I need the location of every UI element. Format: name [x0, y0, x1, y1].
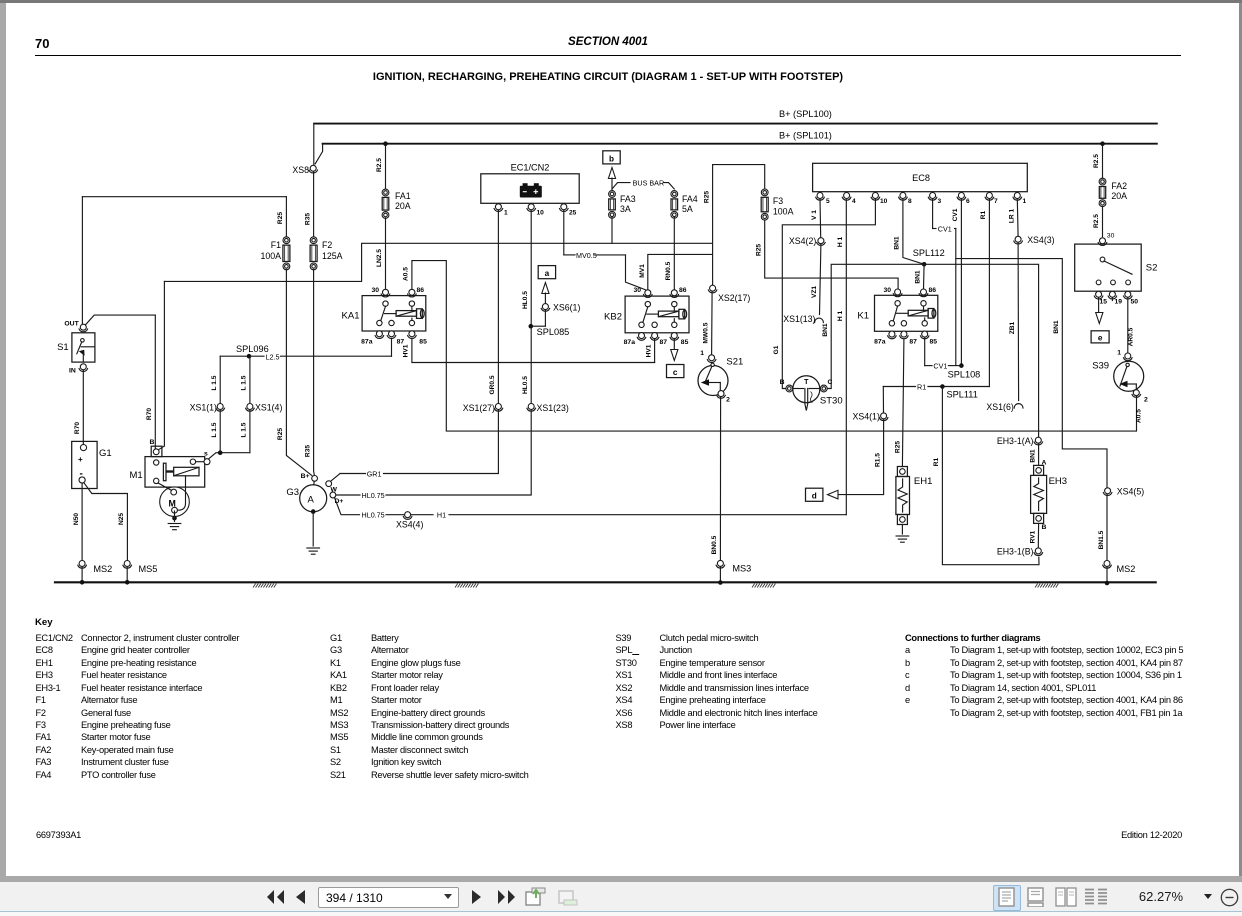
controller box EC8	[813, 163, 1028, 191]
wire CV1 pin3 down	[955, 229, 957, 366]
wire BN1 EH3-1(A) to EH3	[1038, 443, 1040, 465]
reference c box	[667, 365, 684, 378]
connector XS4(3)	[1015, 236, 1021, 242]
hatch marks on ground rail	[253, 584, 276, 588]
wire R25 K1-87 to EH1	[902, 340, 904, 467]
bus B+ (SPL101)	[323, 143, 1157, 145]
svg-text:87: 87	[909, 339, 917, 346]
svg-text:XS4(2): XS4(2)	[789, 236, 816, 246]
svg-text:AR0.5: AR0.5	[1127, 327, 1134, 346]
wire M1 B feed	[163, 281, 165, 446]
footer document number	[36, 830, 81, 840]
junction SPL112	[922, 262, 927, 267]
wire F1 feed from S1 OUT	[82, 196, 286, 198]
svg-text:L 1.5: L 1.5	[211, 375, 218, 390]
svg-text:BN1: BN1	[1030, 449, 1037, 463]
toolbar background	[0, 882, 1242, 912]
wire G1 EC8-10 to ST30 B	[782, 199, 875, 389]
relay KB2 front loader relay	[625, 296, 689, 333]
wire CV1 EC8-3 elbow	[932, 199, 934, 229]
svg-text:M1: M1	[129, 470, 142, 481]
wire HL0.5 EC1 pin10 to XS1(23)	[530, 210, 532, 403]
wire GR1 into G3 W	[331, 474, 340, 482]
svg-text:R1: R1	[980, 210, 987, 219]
wire FA3 to battery rail	[611, 217, 613, 243]
ground of EH1	[901, 525, 903, 535]
wire RN0.5 FA4 to KB2-86	[673, 217, 675, 289]
svg-text:2: 2	[1144, 397, 1148, 404]
svg-text:30: 30	[633, 287, 641, 294]
svg-text:EH3-1(A): EH3-1(A)	[997, 436, 1034, 446]
arrow to d	[828, 490, 839, 499]
wire R25 F1 to G3 B+	[286, 269, 311, 475]
svg-text:+: +	[78, 455, 83, 464]
svg-text:XS8: XS8	[292, 165, 309, 175]
svg-text:XS1(27): XS1(27)	[463, 403, 495, 413]
svg-text:CV1: CV1	[933, 361, 947, 370]
toolbar continuous layout icon	[1027, 887, 1044, 907]
connector EH3-1(A)	[1035, 437, 1041, 443]
svg-text:R70: R70	[146, 408, 153, 420]
battery G1	[72, 441, 97, 488]
connector XS1(4)	[247, 404, 253, 410]
battery icon in EC1/CN2	[520, 186, 542, 198]
junction SPL085	[529, 324, 534, 329]
svg-text:1: 1	[1117, 350, 1121, 357]
svg-text:SPL096: SPL096	[236, 344, 269, 354]
connector XS1(23)	[528, 404, 534, 410]
svg-text:N50: N50	[73, 513, 80, 525]
svg-text:B: B	[150, 439, 155, 446]
clutch pedal micro-switch S39	[1114, 361, 1144, 391]
wire S1 OUT to F1 rail	[81, 197, 83, 324]
ground of M1	[172, 516, 177, 521]
svg-text:S39: S39	[1092, 361, 1109, 372]
ground MS3	[717, 560, 723, 566]
svg-text:BN1: BN1	[915, 270, 922, 284]
fuse FA4 5A	[671, 191, 678, 198]
ground MS2 right	[1104, 561, 1110, 567]
svg-text:EH3: EH3	[1049, 476, 1067, 487]
svg-text:BN1.5: BN1.5	[1098, 530, 1105, 549]
svg-text:87a: 87a	[624, 339, 636, 346]
bus B+ (SPL100)	[314, 123, 1157, 125]
svg-text:HL0.75: HL0.75	[362, 511, 385, 520]
wire GR0.5 EC1 pin1 to XS1(27)	[497, 210, 499, 403]
arrow to a	[542, 283, 549, 294]
wire R25 F3 to K1-30	[765, 220, 898, 289]
terminal B+ of G3	[312, 476, 318, 482]
ignition key switch S2	[1075, 244, 1142, 291]
wire KB2-30 up and to XS2 column	[648, 254, 712, 289]
ground MS2 left	[79, 561, 85, 567]
wire VZ1 XS4(2) to XS1(13)	[820, 244, 821, 315]
toolbar next view icon disabled	[556, 887, 579, 908]
toolbar zoom dropdown caret	[1204, 894, 1212, 899]
svg-text:HL0.75: HL0.75	[362, 491, 385, 500]
svg-text:R70: R70	[74, 422, 81, 434]
wire KB2-85 to c arrow	[673, 339, 675, 349]
pin 6 of EC8	[958, 193, 964, 199]
svg-text:XS4(5): XS4(5)	[1117, 487, 1144, 497]
wire F2 to G3 B+	[313, 269, 316, 475]
svg-text:B+ (SPL100): B+ (SPL100)	[779, 109, 832, 119]
wire N50 G1 to MS2	[81, 483, 83, 560]
svg-text:A0.5: A0.5	[403, 267, 410, 281]
svg-text:XS1(1): XS1(1)	[190, 403, 217, 413]
svg-text:F1: F1	[271, 240, 281, 250]
svg-text:GR1: GR1	[367, 470, 382, 479]
svg-text:BUS BAR: BUS BAR	[633, 178, 665, 187]
wire HL0.75 G3 D+ to H1 line	[335, 498, 360, 515]
svg-text:8: 8	[908, 198, 912, 205]
toolbar single page layout active	[993, 885, 1021, 911]
arrow to b	[608, 168, 615, 179]
toolbar next page button	[469, 889, 483, 905]
svg-text:3A: 3A	[620, 204, 631, 214]
svg-text:b: b	[609, 154, 614, 163]
pin 1 of EC8	[1014, 193, 1020, 199]
wire HV1 KA1-85 to KB2-87	[412, 339, 655, 363]
wire R2.5 bus2 to FA2	[1100, 141, 1105, 146]
svg-text:B: B	[780, 379, 785, 386]
svg-text:IN: IN	[69, 368, 76, 375]
svg-text:4: 4	[852, 198, 856, 205]
viewer left strip	[0, 3, 6, 877]
wire N25 G1 to MS5	[84, 483, 127, 560]
wire ZB1 XS4(3) to XS1(6)	[1017, 243, 1020, 401]
svg-text:30: 30	[1107, 233, 1115, 240]
svg-text:R2.5: R2.5	[376, 158, 383, 172]
fuse F2 125A	[310, 237, 317, 244]
starter motor M1	[145, 457, 205, 488]
pin 3 of EC8	[930, 193, 936, 199]
connector box EC1/CN2	[481, 174, 579, 204]
svg-text:XS1(4): XS1(4)	[255, 403, 282, 413]
svg-text:ZB1: ZB1	[1009, 321, 1016, 334]
viewer right strip	[1239, 3, 1242, 877]
svg-text:86: 86	[679, 287, 687, 294]
svg-text:20A: 20A	[395, 201, 411, 211]
svg-text:L 1.5: L 1.5	[211, 422, 218, 437]
svg-text:86: 86	[417, 287, 425, 294]
heater resistance EH1	[897, 467, 907, 477]
wire F3 feed column (XS2 branch)	[713, 165, 765, 189]
svg-text:G1: G1	[773, 345, 780, 354]
svg-text:KA1: KA1	[342, 311, 360, 322]
svg-text:KB2: KB2	[604, 312, 622, 323]
wire XS6(1) to SPL085	[544, 310, 546, 326]
svg-text:87a: 87a	[361, 339, 373, 346]
svg-text:10: 10	[537, 210, 545, 217]
svg-text:85: 85	[930, 339, 938, 346]
svg-text:FA4: FA4	[682, 194, 698, 204]
wire LR1 EC8-1 to XS4(3)	[1016, 199, 1019, 236]
connector XS6(1)	[542, 304, 548, 310]
svg-text:XS6(1): XS6(1)	[553, 303, 580, 313]
svg-text:EC8: EC8	[912, 173, 930, 183]
svg-text:SPL085: SPL085	[537, 327, 570, 337]
wire MV0.5 EC1 pin25 to KB2-30	[563, 210, 565, 255]
svg-text:7: 7	[994, 198, 998, 205]
svg-text:VZ1: VZ1	[811, 286, 818, 298]
svg-text:R25: R25	[755, 244, 762, 256]
svg-text:HL0.5: HL0.5	[522, 376, 529, 394]
wire R1.5 to d arrow	[882, 387, 884, 413]
svg-text:R25: R25	[277, 428, 284, 440]
reference a box	[538, 266, 555, 279]
ground MS5	[124, 561, 130, 567]
svg-text:XS1(23): XS1(23)	[537, 403, 569, 413]
toolbar page number box	[318, 887, 459, 908]
connector XS4(4)	[405, 512, 411, 518]
connector XS1(1)	[217, 404, 223, 410]
toolbar previous page button	[294, 889, 308, 905]
temperature sensor ST30	[793, 376, 820, 403]
wire XS1(23) to HL0.75 line	[386, 410, 531, 495]
svg-text:25: 25	[569, 210, 577, 217]
pin 2 of S21	[718, 391, 724, 397]
svg-text:LR 1: LR 1	[1009, 209, 1016, 224]
svg-text:RV1: RV1	[1029, 530, 1036, 543]
svg-text:20A: 20A	[1111, 191, 1127, 201]
svg-text:d: d	[812, 492, 817, 501]
motor M of M1	[160, 487, 190, 517]
svg-text:B: B	[1042, 524, 1047, 531]
pin 19 of S2	[1109, 291, 1115, 297]
svg-text:H 1: H 1	[837, 311, 844, 322]
toolbar last page button	[495, 888, 517, 906]
legend connections header	[905, 633, 1040, 643]
fuse FA2 20A	[1099, 178, 1106, 185]
connector XS1(27)	[495, 404, 501, 410]
wire H1 up to EC8 pin 4	[845, 200, 847, 515]
svg-text:L2.5: L2.5	[266, 353, 280, 362]
svg-text:SPL112: SPL112	[913, 248, 945, 258]
svg-text:100A: 100A	[260, 251, 281, 261]
wire MW0.5 XS2(17) to S21 pin1	[711, 291, 714, 354]
svg-text:B+ (SPL101): B+ (SPL101)	[779, 131, 832, 141]
wire BN1 SPL112 to K1-86	[923, 264, 926, 289]
wire LN2.5 FA1 to KA1-30	[385, 218, 387, 289]
svg-text:2: 2	[726, 397, 730, 404]
svg-text:BN1: BN1	[822, 323, 829, 337]
pin 5 of EC8	[817, 193, 823, 199]
svg-text:OUT: OUT	[64, 321, 79, 328]
gray band below page	[0, 876, 1242, 882]
wire bus2 to FA1 junction	[383, 141, 388, 146]
svg-text:c: c	[673, 368, 678, 377]
svg-text:1: 1	[504, 210, 508, 217]
wire R1 EC8-7 to SPL111 rail	[988, 199, 990, 387]
svg-text:3: 3	[938, 198, 942, 205]
svg-text:SPL108: SPL108	[948, 370, 981, 380]
svg-text:RN0.5: RN0.5	[665, 261, 672, 280]
wire S2-15 to e arrow	[1098, 298, 1100, 313]
svg-text:V 1: V 1	[811, 210, 818, 220]
diagram title	[0, 71, 1216, 83]
wire L1.5 to XS1(4)	[249, 356, 251, 453]
wire bus1 to XS8	[313, 124, 315, 165]
svg-text:125A: 125A	[322, 251, 343, 261]
svg-text:R25: R25	[277, 212, 284, 224]
svg-text:S2: S2	[1146, 263, 1158, 274]
fuse F1 100A	[283, 237, 290, 244]
svg-text:100A: 100A	[773, 207, 794, 217]
junction SPL108	[959, 363, 964, 368]
svg-text:XS2(17): XS2(17)	[718, 293, 750, 303]
svg-text:R1.5: R1.5	[874, 453, 881, 467]
toolbar previous view icon	[524, 886, 547, 908]
svg-text:H1: H1	[437, 511, 446, 520]
svg-text:T: T	[804, 379, 809, 386]
svg-text:1: 1	[1023, 198, 1027, 205]
svg-text:MW0.5: MW0.5	[703, 322, 710, 343]
svg-text:EC1/CN2: EC1/CN2	[511, 163, 550, 173]
switch S1 master disconnect	[72, 333, 95, 362]
ground of G3	[311, 509, 316, 514]
wire L1.5 to XS1(1)	[220, 355, 249, 357]
fuse F3 100A	[761, 189, 768, 196]
footer edition	[1082, 830, 1182, 840]
wire CV1 SPL108 to K1-85	[949, 365, 962, 367]
svg-text:87: 87	[660, 339, 668, 346]
svg-text:15: 15	[1100, 298, 1108, 305]
svg-text:19: 19	[1115, 298, 1123, 305]
svg-text:-: -	[80, 469, 83, 480]
wire V1 EC8-5 to XS4(2)	[819, 199, 822, 238]
svg-text:G1: G1	[99, 448, 112, 459]
connector XS4(5)	[1105, 488, 1111, 494]
svg-text:XS1(13): XS1(13)	[783, 314, 815, 324]
svg-text:FA2: FA2	[1111, 181, 1127, 191]
svg-text:30: 30	[883, 287, 891, 294]
svg-text:XS4(3): XS4(3)	[1027, 235, 1054, 245]
svg-text:10: 10	[880, 198, 888, 205]
svg-text:LN2.5: LN2.5	[376, 249, 383, 267]
svg-text:C: C	[828, 379, 833, 386]
wire SPL112 to ST30 C	[827, 264, 924, 388]
svg-text:85: 85	[681, 339, 689, 346]
wire L2.5 SPL096 to KA1-87	[249, 355, 264, 357]
pin 25 of EC1/CN2	[561, 204, 567, 210]
pin 1 of EC1/CN2	[495, 204, 501, 210]
page number 70	[35, 36, 49, 51]
svg-text:HL0.5: HL0.5	[522, 291, 529, 309]
ground bus rail	[55, 581, 1156, 583]
svg-text:K1: K1	[857, 311, 869, 322]
pin 8 of EC8	[900, 193, 906, 199]
svg-text:XS1(6): XS1(6)	[986, 402, 1013, 412]
svg-text:HV1: HV1	[403, 344, 410, 357]
connector XS4(1)	[881, 413, 887, 419]
svg-text:6: 6	[966, 198, 970, 205]
toolbar zoom percentage	[1123, 889, 1183, 904]
svg-text:F2: F2	[322, 240, 332, 250]
terminal D+ of G3	[330, 492, 336, 498]
wire BN1 net to XS4(5) and MS2	[956, 259, 1107, 561]
svg-text:SPL111: SPL111	[947, 390, 978, 400]
pin 2 of S39	[1133, 390, 1139, 396]
toolbar first page button	[265, 888, 287, 906]
wire RV1 EH3 to EH3-1(B)	[1037, 523, 1039, 547]
svg-text:MS2: MS2	[93, 564, 112, 574]
connector EH3-1(B)	[1035, 548, 1041, 554]
svg-text:R2.5: R2.5	[1093, 214, 1100, 228]
svg-text:FA3: FA3	[620, 194, 636, 204]
svg-text:R35: R35	[305, 213, 312, 225]
reference d box	[806, 488, 823, 501]
header rule	[35, 55, 1181, 56]
svg-text:BN1: BN1	[1053, 320, 1060, 334]
svg-text:50: 50	[1131, 298, 1139, 305]
wire R70 S1 IN to G1	[82, 370, 84, 445]
svg-text:MS2: MS2	[1117, 564, 1136, 574]
toolbar two page layout icon	[1055, 887, 1077, 907]
wire CV1 EC8-6 to SPL108	[960, 199, 962, 366]
wire R1 SPL111 to EH3-1(B)	[942, 387, 1039, 565]
svg-text:A0.5: A0.5	[1136, 409, 1143, 423]
terminal W of G3	[326, 481, 332, 487]
toolbar zoom out button	[1220, 888, 1239, 907]
svg-text:EH1: EH1	[914, 476, 932, 487]
svg-text:XS4(1): XS4(1)	[853, 411, 880, 421]
svg-text:a: a	[545, 269, 550, 278]
wire BN0.5 S21 to MS3	[719, 397, 721, 561]
svg-text:R25: R25	[703, 191, 710, 203]
viewer top bar	[0, 0, 1242, 3]
svg-text:HV1: HV1	[645, 344, 652, 357]
wire R2.5 FA2 to S2-30	[1102, 206, 1104, 236]
wire BN1 EC8-8 to SPL112	[903, 199, 924, 265]
relay KA1 starter motor relay	[362, 296, 426, 331]
wire A0.5 KA1-86 loop to S39	[412, 261, 1137, 432]
toolbar two page continuous icon	[1084, 887, 1108, 907]
fuse FA1 20A	[382, 189, 389, 196]
fuse FA3 3A	[609, 191, 616, 198]
svg-text:87: 87	[397, 339, 405, 346]
svg-text:EH3-1(B): EH3-1(B)	[997, 547, 1034, 557]
pin 10 of EC8	[872, 193, 878, 199]
wire S1 OUT to M1 B	[86, 315, 156, 325]
wire bus2 to XS8	[315, 144, 322, 164]
svg-text:N25: N25	[118, 513, 125, 525]
wire R1 rail and junction SPL111	[883, 386, 915, 388]
svg-text:S21: S21	[726, 357, 743, 368]
svg-text:MS5: MS5	[139, 564, 158, 574]
connector XS4(2)	[818, 238, 824, 244]
svg-text:5: 5	[826, 198, 830, 205]
svg-text:F3: F3	[773, 196, 783, 206]
wire R35 XS8 to F2	[313, 172, 315, 238]
wire AR0.5 S2-50 to S39	[1127, 298, 1129, 353]
junction SPL096	[247, 354, 252, 359]
svg-text:GR0.5: GR0.5	[489, 375, 496, 394]
pin 7 of EC8	[986, 193, 992, 199]
svg-text:85: 85	[419, 339, 427, 346]
svg-text:BN0.5: BN0.5	[711, 535, 718, 554]
svg-text:30: 30	[371, 287, 379, 294]
svg-text:G3: G3	[286, 487, 299, 498]
pin 15 of S2	[1096, 291, 1102, 297]
svg-text:R35: R35	[305, 445, 312, 457]
svg-text:86: 86	[929, 287, 937, 294]
svg-text:MV1: MV1	[639, 264, 646, 278]
svg-text:s: s	[204, 451, 208, 458]
svg-text:L 1.5: L 1.5	[241, 422, 248, 437]
svg-text:R1: R1	[917, 382, 926, 391]
svg-text:L 1.5: L 1.5	[241, 375, 248, 390]
